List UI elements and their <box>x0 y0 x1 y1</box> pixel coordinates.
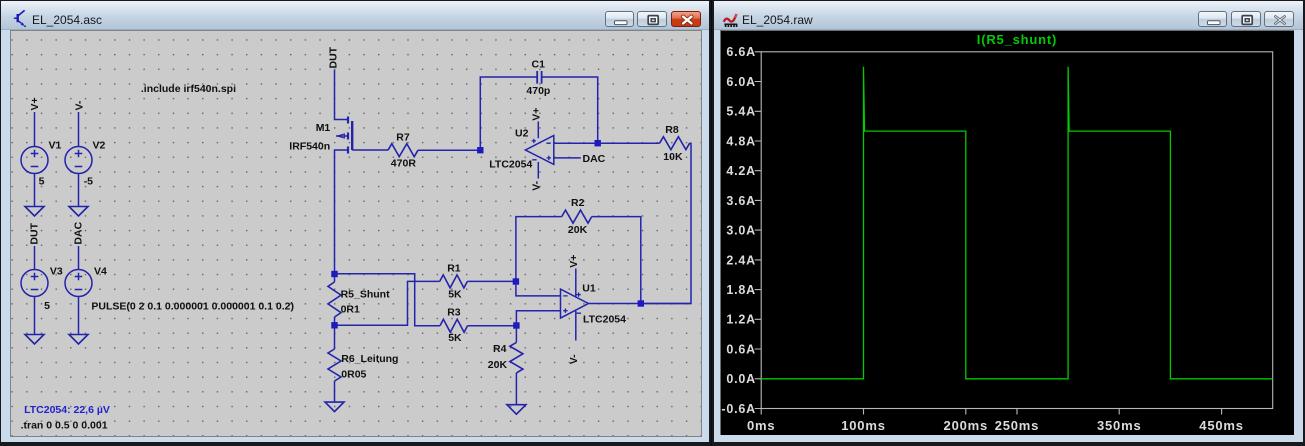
resistor R6_Leitung 0R05 <box>328 349 398 381</box>
voltage source V4 <box>65 266 107 297</box>
svg-text:4.2A: 4.2A <box>726 164 756 178</box>
svg-text:3.6A: 3.6A <box>726 194 756 208</box>
wire V- to V2 <box>78 112 80 147</box>
svg-text:5K: 5K <box>448 288 462 300</box>
svg-text:.include irf540n.spi: .include irf540n.spi <box>141 83 236 95</box>
wire R3 to U1 plus node <box>468 325 517 327</box>
plot frame <box>761 52 1272 409</box>
svg-text:V-: V- <box>568 354 580 364</box>
wire V2 to ground <box>78 174 80 207</box>
svg-text:DUT: DUT <box>328 46 340 68</box>
svg-text:1.2A: 1.2A <box>726 313 756 327</box>
svg-text:470R: 470R <box>391 158 417 170</box>
svg-text:350ms: 350ms <box>1097 418 1141 433</box>
plot title I(R5_shunt) <box>977 32 1057 47</box>
wire R8 down to U1 output line <box>641 143 691 303</box>
svg-text:R3: R3 <box>447 306 461 318</box>
svg-text:R8: R8 <box>665 124 679 136</box>
svg-text:0.6A: 0.6A <box>726 342 756 356</box>
wire DUT to V3 <box>34 246 36 270</box>
wire R1 to U1 minus node <box>467 280 516 282</box>
svg-text:5.4A: 5.4A <box>726 105 756 119</box>
schematic window EL_2054.asc <box>0 0 711 446</box>
svg-text:V1: V1 <box>49 140 62 152</box>
svg-text:V4: V4 <box>94 266 107 278</box>
wire node to R8 <box>598 142 660 144</box>
ground under V1 <box>25 207 44 217</box>
node DAC flag (V4 top) <box>72 221 84 244</box>
resistor R8 10K <box>660 124 690 163</box>
svg-text:R7: R7 <box>396 132 410 144</box>
node junction R5/R6 <box>331 322 337 328</box>
op-amp U2 LTC2054 (mirrored, output left) <box>489 108 554 191</box>
ground under R4 <box>507 405 526 415</box>
svg-text:V+: V+ <box>568 255 580 268</box>
wire U2 plus input to DAC <box>554 157 581 159</box>
wire R6 to ground <box>334 381 336 402</box>
svg-text:R4: R4 <box>493 343 507 355</box>
voltage source V1 <box>21 140 62 188</box>
svg-text:0R05: 0R05 <box>341 369 366 381</box>
wire U1 output <box>588 303 691 305</box>
wire C1 right leg <box>542 77 598 143</box>
ground under R6 <box>325 402 344 412</box>
wire M1 source down to R5 <box>335 150 349 271</box>
wire U1 minus node up to R2 <box>516 217 562 282</box>
wire R4 to ground <box>515 373 517 405</box>
wire node down to R4 <box>515 326 517 343</box>
svg-text:R6_Leitung: R6_Leitung <box>341 353 398 365</box>
svg-text:20K: 20K <box>568 224 588 236</box>
svg-text:5: 5 <box>39 176 45 188</box>
node junction R3/R4/U1plus <box>513 322 519 328</box>
wire into R5 <box>334 274 336 282</box>
svg-text:20K: 20K <box>488 359 508 371</box>
svg-text:470p: 470p <box>526 85 550 97</box>
svg-text:DAC: DAC <box>72 221 84 244</box>
resistor R4 20K <box>488 342 523 373</box>
node junction R1/R2/U1minus <box>513 278 519 284</box>
svg-text:C1: C1 <box>532 59 546 71</box>
comment label LTC2054 offset voltage <box>24 404 110 416</box>
resistor R5_Shunt 0R1 <box>328 282 390 317</box>
waveform window EL_2054.raw <box>712 0 1305 446</box>
svg-text:PULSE(0 2 0.1 0.000001 0.00000: PULSE(0 2 0.1 0.000001 0.000001 0.1 0.2) <box>91 300 294 312</box>
svg-text:DAC: DAC <box>583 153 606 165</box>
svg-text:6.6A: 6.6A <box>726 45 756 59</box>
LTspice raw icon <box>724 14 737 27</box>
svg-text:.tran 0 0.5 0 0.001: .tran 0 0.5 0 0.001 <box>21 419 108 431</box>
svg-text:2.4A: 2.4A <box>726 253 756 267</box>
svg-text:0.0A: 0.0A <box>726 372 756 386</box>
svg-text:U1: U1 <box>582 283 596 295</box>
svg-text:0R1: 0R1 <box>341 304 360 316</box>
wire node to U1 minus input <box>516 282 561 296</box>
svg-text:V-: V- <box>73 100 85 110</box>
svg-text:R5_Shunt: R5_Shunt <box>341 289 391 301</box>
node junction R7/C1/U2out <box>477 147 483 153</box>
node V- flag (V2 top) <box>73 100 85 110</box>
ground under V3 <box>25 335 44 345</box>
node junction M1-source/R5 <box>331 271 337 277</box>
svg-text:250ms: 250ms <box>995 418 1039 433</box>
wire DAC to V4 <box>78 246 80 270</box>
node V+ flag (V1 top) <box>29 97 41 110</box>
svg-text:V+: V+ <box>29 97 41 110</box>
svg-text:5K: 5K <box>448 332 462 344</box>
wire R5 bottom node to R1 <box>335 281 440 325</box>
transistor M1 IRF540n <box>289 117 352 154</box>
spice directive .tran <box>21 419 108 431</box>
svg-text:4.8A: 4.8A <box>726 134 756 148</box>
svg-text:-0.6A: -0.6A <box>721 402 756 416</box>
svg-text:DUT: DUT <box>28 222 40 244</box>
x axis ticks and labels <box>747 409 1244 434</box>
svg-text:V+: V+ <box>531 108 543 121</box>
svg-text:1.8A: 1.8A <box>726 283 756 297</box>
svg-text:-5: -5 <box>84 176 93 188</box>
svg-text:V3: V3 <box>50 266 63 278</box>
ground under V4 <box>69 335 88 345</box>
svg-text:6.0A: 6.0A <box>726 75 756 89</box>
wire V3 to ground <box>34 297 36 335</box>
node junction C1/R8/U2in <box>595 140 601 146</box>
svg-text:200ms: 200ms <box>944 418 988 433</box>
wire C1 left leg <box>480 77 537 150</box>
voltage source V3 <box>21 266 63 312</box>
svg-text:U2: U2 <box>515 128 529 140</box>
wire node down to R6 <box>334 325 336 349</box>
ground under V2 <box>69 207 88 217</box>
svg-text:V-: V- <box>531 180 543 190</box>
wire DUT to M1 drain <box>335 70 349 120</box>
green trace I(R5_shunt) <box>761 67 1272 379</box>
resistor R2 20K <box>562 197 592 236</box>
LTspice asc icon <box>14 10 26 27</box>
svg-text:0ms: 0ms <box>747 418 775 433</box>
value label PULSE of V4 <box>91 300 294 312</box>
wire R7 to U2 output node <box>418 149 480 151</box>
wire V1 to ground <box>34 174 36 207</box>
svg-text:LTC2054: LTC2054 <box>489 159 532 171</box>
svg-text:R2: R2 <box>571 197 585 209</box>
capacitor C1 470p <box>526 59 550 97</box>
resistor R1 5K <box>440 263 468 301</box>
svg-text:IRF540n: IRF540n <box>289 141 330 153</box>
voltage source V2 <box>65 140 106 188</box>
svg-text:100ms: 100ms <box>841 418 885 433</box>
svg-text:LTC2054: LTC2054 <box>583 314 626 326</box>
grid dots <box>11 31 701 436</box>
svg-text:LTC2054: 22,6 µV: LTC2054: 22,6 µV <box>24 404 110 416</box>
node DUT flag (M1 drain) <box>328 46 340 68</box>
resistor R3 5K <box>440 306 468 344</box>
node junction U1out/R2/R8 <box>638 300 644 306</box>
svg-text:I(R5_shunt): I(R5_shunt) <box>977 32 1057 47</box>
spice directive .include <box>141 83 236 95</box>
wire V4 to ground <box>78 297 80 335</box>
wire R5 top node to R3 <box>335 274 441 326</box>
wire node to U1 plus input <box>516 311 560 326</box>
wire R5 to bottom node <box>334 317 336 325</box>
svg-text:3.0A: 3.0A <box>726 224 756 238</box>
op-amp U1 LTC2054 <box>561 255 627 365</box>
svg-text:10K: 10K <box>663 151 683 163</box>
svg-text:V2: V2 <box>93 140 106 152</box>
wire V+ to V1 <box>34 112 36 147</box>
svg-text:5: 5 <box>44 300 50 312</box>
svg-text:M1: M1 <box>316 122 331 134</box>
svg-text:R1: R1 <box>447 263 461 275</box>
y axis ticks and labels <box>721 45 761 416</box>
node DUT flag (V3 top) <box>28 222 40 244</box>
wire R2 to U1 output node <box>592 217 641 304</box>
node DAC flag (U2 input) <box>583 153 606 165</box>
wire U2 minus input to node <box>554 142 598 144</box>
resistor R7 470R <box>388 132 418 170</box>
svg-text:450ms: 450ms <box>1199 418 1243 433</box>
wire M1 gate to R7 <box>352 149 388 151</box>
